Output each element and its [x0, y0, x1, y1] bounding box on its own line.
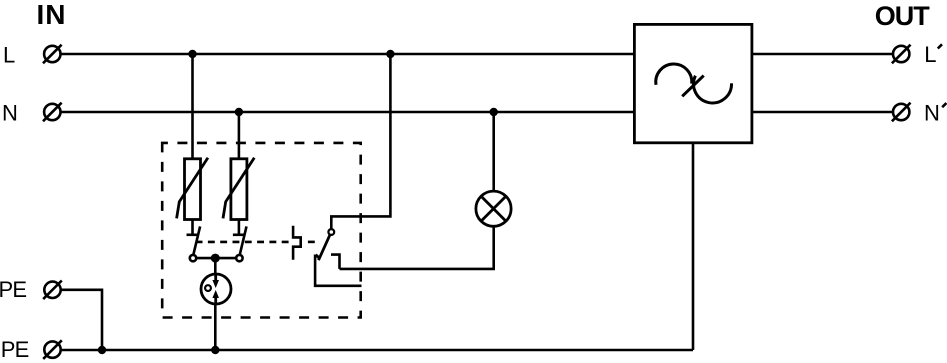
filter sine symbol: [656, 64, 732, 103]
wire lamp bottom: [340, 227, 494, 269]
terminal PE lower: [43, 340, 62, 359]
enclosure dashed box: [162, 143, 361, 318]
wire N line right: [752, 111, 893, 114]
terminal PE upper: [43, 281, 62, 300]
wire varistor2 top lead: [238, 112, 241, 160]
junction spark gap / PE line: [211, 346, 219, 354]
filter box U1: [634, 24, 752, 142]
svg-text:N: N: [924, 101, 940, 126]
thermal disconnect F1: [187, 220, 201, 262]
terminal L (IN): [43, 45, 62, 64]
linkage actuator: [293, 226, 301, 260]
mechanical linkage dashed: [196, 241, 316, 244]
svg-text:N: N: [2, 101, 18, 126]
switch fixed contact circle: [328, 229, 334, 235]
junction L / varistor1: [188, 50, 196, 58]
varistor RV2: [223, 158, 254, 220]
terminal N (IN): [43, 103, 62, 122]
wire disconnect connector: [196, 257, 236, 260]
junction PE1 / PE line: [98, 346, 106, 354]
junction N / varistor2: [235, 108, 243, 116]
svg-text:L: L: [3, 43, 15, 68]
junction L / switch: [386, 50, 394, 58]
wire switch NC path: [315, 255, 361, 286]
spark gap F3: [201, 274, 231, 304]
junction N / lamp: [490, 108, 498, 116]
wire spark gap top lead: [214, 258, 217, 275]
wire L line right: [752, 53, 893, 56]
terminal L' (OUT): [892, 45, 911, 64]
wire L line left: [61, 53, 635, 56]
thermal disconnect F2: [233, 220, 247, 262]
wire varistor1 top lead: [191, 54, 194, 160]
svg-text:IN: IN: [37, 0, 67, 30]
lamp H1: [476, 191, 511, 226]
wire spark gap bottom lead: [214, 304, 217, 350]
svg-text:PE: PE: [1, 337, 29, 362]
wire N line left: [61, 111, 635, 114]
wire PE bottom line: [61, 349, 693, 352]
terminal N' (OUT): [892, 103, 911, 122]
varistor RV1: [177, 158, 208, 220]
svg-text:PE: PE: [0, 277, 26, 302]
junction disconnects / spark gap: [211, 254, 220, 263]
wire PE1 to bottom line: [61, 290, 102, 350]
wire L to switch common: [331, 54, 390, 229]
switch blade: [316, 235, 330, 261]
svg-text:OUT: OUT: [875, 1, 931, 31]
wire lamp top lead: [492, 112, 495, 191]
svg-text:L: L: [924, 42, 936, 67]
switch NO contact bracket: [331, 255, 340, 269]
wire box to PE line: [692, 143, 695, 350]
